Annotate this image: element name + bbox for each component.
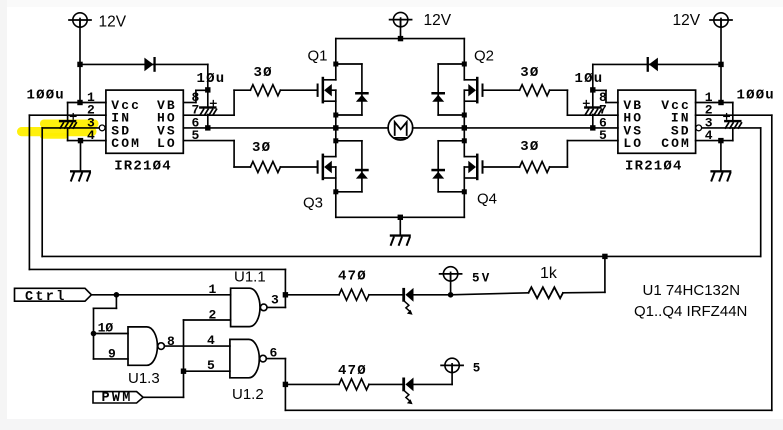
svg-text:4: 4 (705, 128, 713, 143)
svg-text:IR21Ø4: IR21Ø4 (114, 158, 172, 174)
svg-text:1Øu: 1Øu (197, 71, 226, 87)
svg-text:3Ø: 3Ø (520, 65, 539, 81)
svg-text:U1.3: U1.3 (128, 370, 160, 387)
svg-text:12V: 12V (424, 12, 452, 29)
svg-text:1: 1 (209, 282, 217, 297)
svg-text:12V: 12V (99, 13, 127, 30)
svg-text:5V: 5V (472, 271, 491, 285)
svg-text:3Ø: 3Ø (520, 139, 539, 155)
svg-text:5: 5 (473, 361, 483, 375)
svg-text:IR21Ø4: IR21Ø4 (625, 158, 683, 174)
svg-text:COM: COM (661, 136, 691, 151)
svg-text:1ØØu: 1ØØu (27, 87, 65, 103)
svg-text:4: 4 (207, 333, 215, 348)
svg-text:4: 4 (87, 128, 95, 143)
svg-text:Ctrl: Ctrl (25, 290, 67, 305)
svg-text:COM: COM (111, 136, 141, 151)
svg-text:LO: LO (623, 136, 643, 151)
svg-text:5: 5 (207, 358, 215, 373)
svg-text:47Ø: 47Ø (338, 269, 367, 285)
svg-text:U1 74HC132N: U1 74HC132N (643, 282, 741, 299)
svg-text:2: 2 (209, 307, 217, 322)
svg-text:1Ø: 1Ø (98, 321, 114, 336)
svg-text:PWM: PWM (102, 391, 133, 406)
svg-text:Q4: Q4 (477, 191, 497, 208)
svg-text:U1.1: U1.1 (234, 269, 266, 286)
svg-text:LO: LO (157, 136, 177, 151)
svg-text:U1.2: U1.2 (232, 386, 264, 403)
svg-text:3Ø: 3Ø (254, 65, 273, 81)
svg-text:1k: 1k (540, 265, 558, 282)
svg-text:Q2: Q2 (474, 48, 494, 65)
svg-text:8: 8 (167, 334, 175, 349)
svg-text:1ØØu: 1ØØu (737, 87, 775, 103)
svg-text:Q3: Q3 (303, 195, 323, 212)
svg-text:5: 5 (192, 128, 200, 143)
svg-text:5: 5 (599, 128, 607, 143)
svg-text:3: 3 (271, 293, 279, 308)
svg-text:12V: 12V (673, 12, 701, 29)
svg-text:9: 9 (108, 347, 116, 362)
svg-text:Q1: Q1 (308, 48, 328, 65)
svg-text:47Ø: 47Ø (338, 363, 367, 379)
svg-text:1Øu: 1Øu (575, 71, 604, 87)
svg-text:3Ø: 3Ø (252, 140, 271, 156)
svg-text:Q1..Q4 IRFZ44N: Q1..Q4 IRFZ44N (634, 303, 747, 320)
svg-text:6: 6 (270, 345, 278, 360)
